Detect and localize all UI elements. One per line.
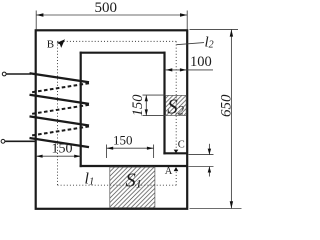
point A arrow (flux out of air gap) bbox=[174, 167, 179, 171]
dimension 150 (S1): left extension line bbox=[106, 145, 108, 159]
core outer outline bbox=[36, 30, 188, 209]
dimension 150 (S2): top arrowhead bbox=[145, 95, 148, 101]
dimension 150 (S1): dimension line bbox=[107, 147, 154, 149]
dimension 650: bottom extension line bbox=[190, 208, 242, 210]
svg-text:150: 150 bbox=[52, 142, 73, 157]
bottom limb top edge (air-gap bottom, point A side) bbox=[80, 165, 188, 167]
dimension 650: bottom arrowhead bbox=[230, 201, 233, 208]
dimension 500: dimension line bbox=[36, 14, 187, 16]
dimension 650: top extension line bbox=[190, 28, 239, 30]
core window left edge bbox=[80, 52, 82, 168]
air gap dimension: top extension line bbox=[189, 154, 214, 156]
dimension 150 (coil limb): dimension line bbox=[36, 155, 81, 157]
svg-text:650: 650 bbox=[219, 94, 235, 117]
dimension 150 (S2): dimension line bbox=[145, 95, 147, 116]
svg-text:150: 150 bbox=[113, 133, 133, 148]
svg-text:B: B bbox=[47, 39, 54, 51]
point C arrow (flux into air gap) bbox=[174, 150, 179, 154]
dimension 150 (S2): top extension line bbox=[143, 94, 166, 96]
mean flux path right lower segment (dotted) bbox=[175, 172, 177, 185]
coil turn 2 back strand (dashed) bbox=[30, 105, 89, 114]
coil turn 1 back strand (dashed) bbox=[30, 83, 89, 92]
flux direction arrow at top-left corner bbox=[57, 39, 65, 48]
wire top lead bbox=[6, 73, 31, 75]
right limb bottom edge (air-gap top, point C side) bbox=[163, 152, 187, 154]
mean flux path bottom (dotted, l1 path) bbox=[58, 184, 177, 186]
cross-section S2 hatched block bbox=[166, 95, 187, 115]
dimension 100: dimension line with arrows bbox=[166, 69, 187, 71]
dimension 650: dimension line bbox=[230, 29, 232, 208]
dimension 150 (coil limb): right arrowhead bbox=[74, 155, 81, 158]
svg-text:C: C bbox=[178, 140, 185, 151]
dimension 100: right arrowhead bbox=[180, 68, 187, 71]
dimension 500: right arrowhead bbox=[180, 13, 187, 16]
svg-text:A: A bbox=[165, 166, 173, 177]
terminal circle bottom bbox=[1, 139, 5, 143]
leader line to l2 bbox=[177, 43, 205, 45]
air gap dimension: bottom extension line bbox=[189, 166, 214, 168]
mean flux path left (dotted) bbox=[57, 41, 59, 185]
dimension 500: left extension line bbox=[35, 11, 37, 30]
terminal circle top bbox=[2, 72, 6, 76]
dimension 500: left arrowhead bbox=[36, 13, 43, 16]
core window right edge bbox=[163, 52, 165, 155]
dimension 150 (S1): right extension line bbox=[153, 145, 155, 159]
core window top edge bbox=[80, 52, 166, 54]
air gap dimension: lower line bbox=[208, 167, 210, 177]
dimension 150 (S2): bottom extension line bbox=[143, 115, 166, 117]
dimension 500: right extension line bbox=[186, 11, 188, 30]
cross-section S1 hatched block bbox=[110, 167, 155, 208]
svg-text:100: 100 bbox=[190, 54, 212, 70]
coil turn 2 front strand bbox=[30, 95, 90, 104]
air gap dimension: upper line bbox=[208, 144, 210, 155]
mean flux path top (dotted) bbox=[58, 40, 177, 42]
dimension 100: left arrowhead bbox=[166, 68, 173, 71]
wire bottom lead bbox=[5, 140, 36, 142]
svg-text:150: 150 bbox=[130, 94, 146, 117]
coil turn 3 back strand (dashed) bbox=[30, 126, 89, 135]
coil turn 1 front strand bbox=[30, 73, 90, 82]
dimension 650: top arrowhead bbox=[230, 29, 233, 36]
air gap dimension: up arrowhead bbox=[208, 167, 211, 173]
mean flux path right upper segment (dotted) bbox=[175, 41, 177, 149]
dimension 150 (S2): bottom arrowhead bbox=[145, 109, 148, 115]
svg-text:500: 500 bbox=[95, 0, 118, 16]
dimension 150 (coil limb): left arrowhead bbox=[36, 155, 43, 158]
dimension 150 (S1): right arrowhead bbox=[147, 147, 154, 150]
coil turn 4 front strand bbox=[30, 138, 90, 147]
air gap dimension: down arrowhead bbox=[208, 149, 211, 155]
dimension 100: tail line under text bbox=[187, 69, 213, 71]
dimension 150 (S1): left arrowhead bbox=[107, 147, 114, 150]
coil turn 3 front strand bbox=[30, 116, 90, 125]
